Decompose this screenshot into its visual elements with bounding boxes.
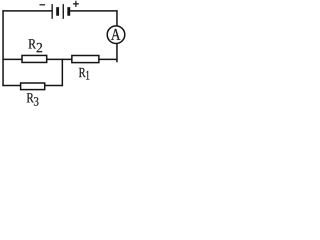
wire left vertical	[2, 10, 4, 86]
battery cell short thick plate 1	[56, 7, 59, 16]
resistor R2 box	[22, 55, 47, 62]
battery plus polarity sign	[73, 1, 79, 7]
battery cell long plate 2	[63, 4, 64, 19]
label R1 letter R	[79, 68, 86, 77]
wire bottom horizontal	[2, 85, 63, 87]
label R2 subscript 2	[37, 43, 42, 52]
ammeter A1 circle	[107, 26, 125, 44]
battery cell long plate 1	[52, 4, 53, 19]
ammeter letter A	[111, 29, 120, 40]
wire right vertical lower (ammeter to middle wire)	[116, 44, 118, 63]
battery cell short thick plate 2	[67, 7, 70, 16]
label R3 letter R	[27, 93, 34, 102]
battery minus polarity sign	[40, 4, 46, 5]
wire middle horizontal	[2, 58, 117, 60]
wire top-right segment	[70, 10, 118, 12]
label R2 letter R	[28, 39, 36, 48]
resistor R3 box	[21, 83, 45, 90]
resistor R1 box	[72, 56, 99, 63]
wire middle vertical (node junction to R3 branch)	[61, 59, 63, 86]
wire right vertical upper (to ammeter)	[116, 10, 118, 26]
label R3 subscript 3	[34, 97, 39, 106]
label R1 subscript 1	[86, 71, 89, 80]
wire top-left segment	[2, 10, 52, 12]
